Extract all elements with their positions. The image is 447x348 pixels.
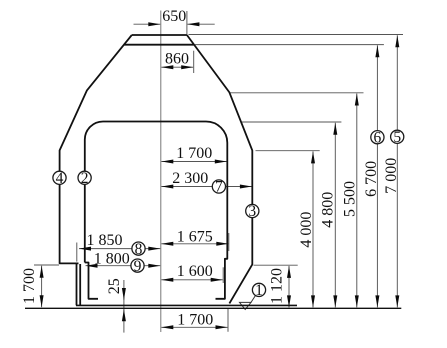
circle 3	[246, 204, 259, 217]
dim 650 right segment	[187, 23, 214, 25]
dim 2300	[161, 186, 252, 188]
svg-text:4: 4	[56, 170, 64, 187]
dim 1800	[86, 265, 161, 267]
dim 1850	[79, 248, 160, 250]
thin extension and dimension lines	[34, 11, 403, 333]
dim 7000 vertical	[396, 35, 398, 307]
ext line 1850	[76, 243, 78, 262]
ext line 4800	[242, 121, 341, 123]
dim 25 lower arrow	[123, 309, 125, 321]
ext line 1600	[222, 267, 224, 283]
ext line 5500	[230, 92, 364, 94]
dim 6700 vertical	[376, 45, 378, 307]
dim 1600	[161, 279, 222, 281]
svg-text:860: 860	[165, 50, 189, 67]
ext line bottom 1700	[227, 309, 229, 332]
dim 4800 vertical	[334, 123, 336, 308]
ext line 860	[193, 51, 195, 73]
dim left 1700 vertical	[41, 266, 43, 308]
svg-text:7: 7	[215, 179, 223, 196]
dim 1700 mid	[161, 161, 227, 163]
centre axis line	[160, 11, 162, 333]
svg-text:1: 1	[255, 282, 263, 299]
inner left wall foot step	[85, 263, 98, 299]
dim 25 witness line	[123, 280, 125, 333]
dim 4000 vertical	[312, 151, 314, 307]
circle 1	[252, 283, 265, 296]
outer left slope and wall	[60, 35, 132, 263]
ext line 7000	[189, 34, 404, 36]
dim 25 upper arrow	[123, 288, 125, 300]
outer right slope and wall	[187, 35, 252, 303]
circle 9	[131, 259, 144, 272]
circle 7	[212, 180, 225, 193]
circle 6	[371, 131, 384, 144]
dim 1675	[161, 243, 228, 245]
svg-text:9: 9	[134, 258, 142, 275]
svg-text:2 300: 2 300	[172, 170, 208, 187]
svg-text:4 800: 4 800	[320, 192, 337, 228]
svg-text:650: 650	[162, 8, 186, 25]
svg-text:1 700: 1 700	[21, 268, 38, 304]
svg-text:3: 3	[248, 203, 256, 220]
svg-text:1 850: 1 850	[87, 232, 123, 249]
ext line 4000	[256, 150, 320, 152]
ground line	[25, 307, 401, 309]
svg-text:5 500: 5 500	[342, 181, 359, 217]
svg-text:1 600: 1 600	[177, 263, 213, 280]
ground level mark triangle	[240, 296, 256, 310]
outer top flat	[132, 34, 187, 36]
ext line 1675	[228, 233, 230, 251]
svg-text:8: 8	[135, 241, 143, 258]
dimension texts	[21, 8, 400, 329]
crown second line	[124, 44, 194, 46]
svg-text:25: 25	[106, 278, 123, 294]
outer profile	[60, 35, 253, 305]
circle 4	[53, 171, 66, 184]
svg-text:6 700: 6 700	[363, 161, 380, 197]
dim bottom 1700	[161, 326, 227, 328]
svg-text:5: 5	[393, 129, 401, 146]
dim 860	[161, 66, 193, 68]
svg-text:1 700: 1 700	[177, 312, 213, 329]
ext line 1120	[254, 264, 298, 266]
leader line to circle 1	[251, 296, 255, 303]
left drainage channel lines	[76, 264, 78, 305]
svg-text:4 000: 4 000	[298, 212, 315, 248]
svg-text:1 120: 1 120	[269, 268, 286, 304]
ext line left 1700	[34, 264, 59, 266]
svg-text:7 000: 7 000	[383, 158, 400, 194]
svg-text:1 675: 1 675	[177, 229, 213, 246]
dim 5500 vertical	[356, 94, 358, 308]
ext line 6700	[195, 44, 384, 46]
circle 8	[132, 242, 145, 255]
svg-text:1 800: 1 800	[94, 250, 130, 267]
inner floor line	[76, 304, 297, 306]
ext line right of 650	[186, 11, 188, 35]
svg-text:1 700: 1 700	[176, 145, 212, 162]
circle 5	[391, 130, 404, 143]
svg-text:6: 6	[374, 129, 382, 146]
inner profile	[85, 122, 228, 299]
circled labels	[53, 130, 404, 296]
circle 2	[78, 171, 91, 184]
dim 1120 vertical	[288, 266, 290, 308]
dim 650 left segment	[134, 23, 161, 25]
svg-text:2: 2	[81, 170, 89, 187]
floor lines	[25, 305, 401, 308]
